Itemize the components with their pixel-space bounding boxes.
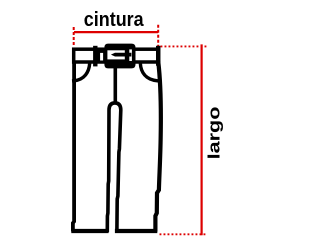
belt tip: [99, 51, 105, 62]
pants outline: [71, 48, 161, 231]
belt left loop: [93, 46, 97, 67]
svg-text:cintura: cintura: [84, 9, 144, 31]
waistband right edge: [156, 48, 160, 64]
dimension line largo (vertical red): [201, 44, 203, 235]
svg-text:largo: largo: [204, 106, 223, 159]
right leg hem: [115, 229, 157, 233]
belt buckle body: [104, 44, 135, 69]
left extension tick (dashed vertical): [73, 27, 75, 46]
dotted connector top (waist to largo line): [161, 45, 208, 47]
left leg outer seam: [73, 63, 74, 230]
waistband: [74, 49, 159, 62]
right extension tick (dashed vertical): [157, 25, 159, 47]
buckle right white sliver: [129, 49, 132, 61]
buckle window (white): [107, 50, 124, 59]
fly seam: [114, 65, 118, 102]
left leg hem: [71, 229, 108, 233]
left pocket curve: [74, 63, 90, 81]
dotted connector bottom (hem to largo line): [160, 233, 207, 235]
buckle prong: [111, 53, 131, 57]
right pocket curve: [140, 63, 157, 81]
dimension line cintura (horizontal red): [74, 31, 158, 33]
right leg outer seam: [155, 63, 160, 230]
left leg inner seam + crotch + right leg inner seam: [107, 103, 121, 231]
